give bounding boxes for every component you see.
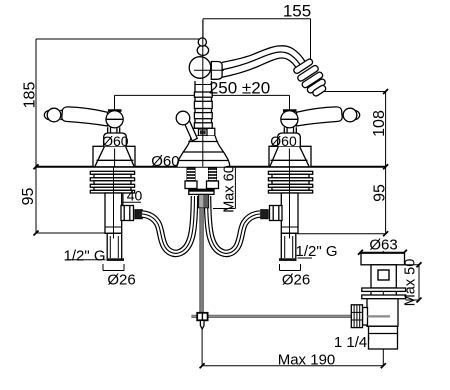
svg-text:155: 155	[283, 2, 311, 21]
svg-text:Max 190: Max 190	[278, 352, 336, 369]
svg-text:40: 40	[127, 188, 143, 204]
svg-text:95: 95	[372, 184, 389, 202]
svg-text:1/2" G: 1/2" G	[295, 243, 337, 260]
svg-text:250 ±20: 250 ±20	[209, 79, 270, 98]
svg-text:95: 95	[20, 188, 37, 206]
svg-text:1 1/4': 1 1/4'	[334, 334, 370, 351]
svg-text:Ø26: Ø26	[107, 272, 135, 289]
svg-text:Ø63: Ø63	[369, 237, 397, 254]
svg-text:1/2" G: 1/2" G	[63, 248, 105, 265]
svg-text:Ø60: Ø60	[151, 153, 179, 170]
svg-text:Max 60: Max 60	[222, 165, 238, 213]
svg-text:Ø60: Ø60	[102, 133, 129, 149]
svg-text:185: 185	[22, 82, 39, 109]
svg-text:108: 108	[371, 110, 388, 137]
svg-text:Ø60: Ø60	[270, 133, 297, 149]
svg-text:Max 50: Max 50	[403, 259, 419, 307]
svg-text:Ø26: Ø26	[282, 272, 310, 289]
